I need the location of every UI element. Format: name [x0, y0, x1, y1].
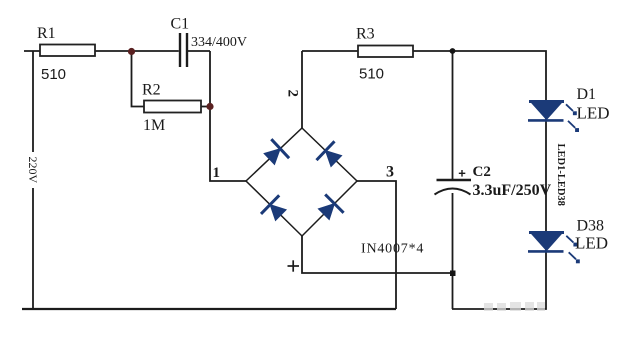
svg-text:R3: R3: [356, 26, 375, 43]
wire from C1 right plate to vertical rail: [188, 50, 210, 52]
capacitor C2: [435, 164, 552, 199]
junction dot D (black square, bottom): [450, 271, 456, 277]
svg-text:3: 3: [386, 164, 394, 181]
bridge rectifier diamond: [246, 128, 357, 236]
svg-text:IN4007*4: IN4007*4: [361, 242, 424, 257]
svg-text:334/400V: 334/400V: [191, 35, 247, 50]
junction dot B (maroon): [206, 103, 213, 110]
diode top-right of bridge: [317, 141, 342, 166]
svg-text:3.3uF/250V: 3.3uF/250V: [473, 182, 552, 199]
LED D38: [528, 218, 608, 264]
wire C2 rail upper: [452, 51, 454, 179]
wire C2 rail lower: [452, 193, 454, 309]
svg-text:C1: C1: [171, 16, 190, 33]
resistor R2: [144, 101, 201, 113]
resistor R3: [358, 46, 413, 58]
svg-text:LED1-LED38: LED1-LED38: [555, 144, 566, 206]
svg-text:220V: 220V: [26, 157, 40, 184]
diode bottom-right of bridge: [318, 194, 343, 219]
junction dot A (maroon): [128, 48, 135, 55]
svg-text:C2: C2: [473, 164, 491, 180]
svg-text:D38: D38: [577, 218, 605, 235]
wire bottom rail: [22, 308, 396, 310]
svg-text:LED: LED: [577, 104, 610, 123]
diode bottom-left of bridge: [261, 195, 286, 220]
svg-text:LED: LED: [575, 234, 608, 253]
wire from junction A down to R2 left: [132, 51, 145, 107]
svg-text:510: 510: [359, 66, 384, 83]
svg-text:R1: R1: [37, 25, 56, 42]
svg-text:R2: R2: [142, 82, 161, 99]
svg-text:510: 510: [41, 66, 66, 83]
wire left 220V rail and bottom rail: [32, 51, 34, 309]
svg-text:2: 2: [285, 90, 301, 98]
wire node3 right and down to bottom rail: [357, 181, 396, 309]
wire top-right rail through R3, LED rail right side, bottom-right: [302, 51, 546, 309]
junction dot C (black, top): [450, 48, 456, 54]
diode top-left of bridge: [264, 139, 289, 164]
wire vertical rail C1/R2 junction down to node 1: [210, 51, 246, 181]
LED D1: [528, 86, 610, 132]
wire R2 right to rail: [201, 106, 210, 108]
watermark (faint): [484, 302, 545, 311]
svg-text:D1: D1: [577, 86, 597, 103]
capacitor C1: [171, 16, 248, 68]
wire bridge + output down and right to C2 rail: [302, 236, 452, 273]
resistor R1: [40, 45, 95, 57]
wire node2 vertical from top rail to bridge top corner: [301, 51, 303, 128]
node + label: [288, 260, 300, 271]
label 220V (rotated): [26, 152, 40, 188]
svg-text:1M: 1M: [143, 117, 165, 134]
wire top-left horizontal from 220V rail to C1 left plate: [24, 50, 179, 52]
svg-text:1: 1: [213, 165, 221, 181]
